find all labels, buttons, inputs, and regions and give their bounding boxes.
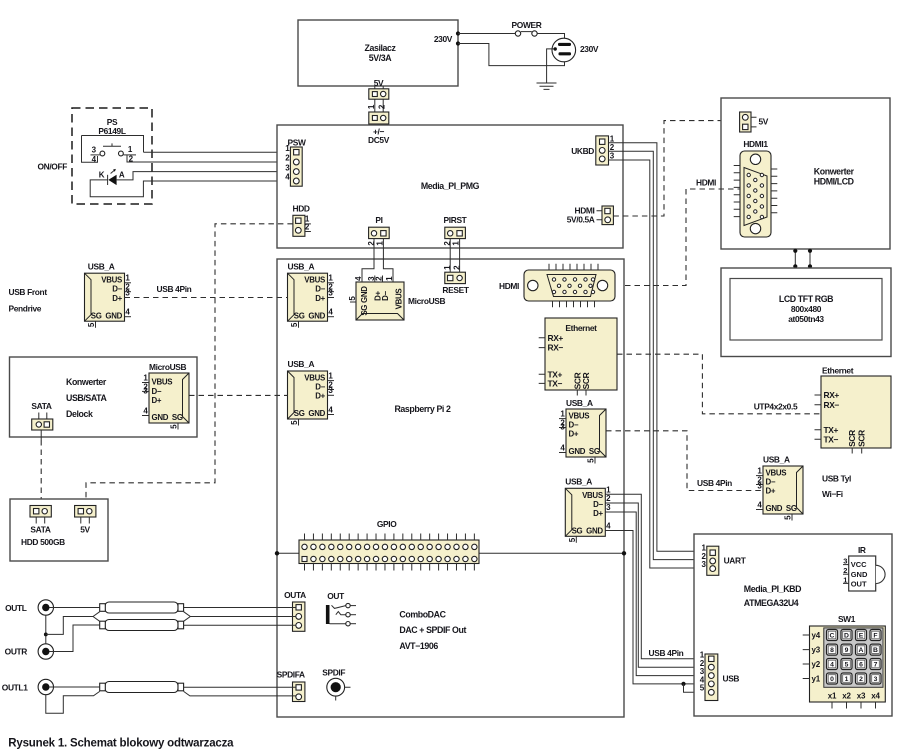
svg-text:GND: GND [766, 504, 783, 513]
RCA jack OUTL [5, 600, 53, 615]
wire plug earth [547, 49, 554, 83]
keypad SW1 [803, 614, 886, 709]
svg-text:9: 9 [845, 647, 849, 654]
wire (dashed) Konwerter MicroUSB to RPi USB2 [189, 394, 288, 396]
svg-text:Zasilacz: Zasilacz [364, 43, 396, 53]
svg-text:D+: D+ [766, 487, 776, 496]
wire (dashed) RPi USB3 to USB Tyl Wi-Fi [606, 431, 763, 491]
svg-text:USB_A: USB_A [763, 455, 790, 465]
svg-text:8: 8 [830, 647, 834, 654]
svg-text:A: A [859, 647, 864, 654]
svg-text:USB_A: USB_A [566, 398, 593, 408]
svg-text:D: D [844, 632, 849, 639]
wire branch to KBD USB5 [684, 684, 706, 692]
node USB GND branch [681, 682, 685, 686]
IR receiver U IR [843, 545, 885, 591]
svg-text:P6149L: P6149L [98, 126, 125, 136]
svg-text:K: K [99, 171, 105, 180]
shielded cable W3 [100, 682, 184, 693]
svg-text:OUTA: OUTA [284, 590, 306, 600]
svg-text:1: 1 [125, 274, 130, 283]
node divider left [275, 551, 279, 555]
connector 5V (HDD) [75, 506, 96, 535]
svg-text:VCC: VCC [851, 560, 867, 569]
node divider right [622, 551, 626, 555]
wire RPi USB4 pin3 to KBD USB3 [605, 512, 705, 676]
svg-text:2: 2 [375, 276, 384, 281]
AC plug 230V [552, 38, 599, 62]
box Ethernet (RPi) [539, 318, 617, 396]
wire PI.2 to MicroUSB pin4 [362, 239, 374, 276]
svg-text:GND: GND [308, 409, 325, 418]
connector RESET [442, 265, 469, 295]
wire UKBD1 to UART1 [609, 143, 707, 552]
svg-text:1: 1 [845, 676, 849, 683]
box Media_PI_KBD ATMEGA32U4 [694, 534, 892, 716]
svg-text:AVT−1906: AVT−1906 [399, 641, 438, 651]
svg-text:1: 1 [128, 145, 133, 154]
svg-text:OUTR: OUTR [5, 647, 28, 657]
wire 5V connector to DC5V connector pins 1 2 [375, 99, 383, 112]
svg-text:GND: GND [586, 526, 603, 535]
svg-text:F: F [873, 632, 877, 639]
dashed enclosure PS P6149L [37, 108, 152, 204]
wire LED cathode loop to PSW4 [90, 180, 290, 197]
svg-text:UKBD: UKBD [571, 146, 594, 156]
svg-text:Rysunek 1. Schemat blokowy odt: Rysunek 1. Schemat blokowy odtwarzacza [8, 738, 234, 750]
svg-text:E: E [859, 632, 864, 639]
svg-text:SCR: SCR [581, 372, 591, 389]
svg-text:USB Tyl: USB Tyl [822, 474, 851, 484]
connector USB_A (RPi port 1) [288, 262, 335, 328]
svg-text:7: 7 [874, 661, 878, 668]
connector SPDIFA [277, 670, 305, 702]
svg-text:3: 3 [125, 288, 130, 297]
wire W3 to SPDIFA1 [184, 686, 296, 688]
svg-text:5V: 5V [80, 525, 90, 535]
svg-text:5: 5 [845, 661, 849, 668]
svg-text:RX+: RX+ [548, 333, 564, 343]
connector SATA (Konwerter) [31, 401, 52, 430]
svg-text:VBUS: VBUS [304, 276, 325, 285]
svg-text:DAC + SPDIF Out: DAC + SPDIF Out [399, 625, 466, 635]
connector GPIO [299, 519, 479, 571]
svg-text:5V: 5V [759, 117, 769, 127]
wire PIRST to RESET [450, 239, 459, 273]
svg-text:D+: D+ [112, 294, 122, 303]
svg-text:SG: SG [786, 504, 797, 513]
connector PIRST [443, 215, 468, 245]
svg-text:B: B [873, 647, 878, 654]
svg-text:x4: x4 [871, 692, 880, 701]
svg-text:at050tn43: at050tn43 [788, 314, 824, 324]
svg-text:GND: GND [152, 413, 169, 422]
svg-text:3: 3 [92, 145, 97, 154]
svg-text:USB/SATA: USB/SATA [66, 393, 108, 403]
svg-text:GND: GND [308, 311, 325, 320]
svg-text:HDMI/LCD: HDMI/LCD [814, 177, 854, 187]
svg-text:3: 3 [610, 152, 615, 161]
svg-text:5V/0.5A: 5V/0.5A [567, 215, 595, 225]
wire RPi USB4 pin4 to KBD USB4 [605, 531, 705, 684]
svg-text:4: 4 [354, 276, 363, 281]
svg-text:TX−: TX− [824, 434, 839, 444]
svg-text:1: 1 [385, 276, 394, 281]
wire PSU to 5V connector [375, 86, 383, 89]
svg-text:SCR: SCR [857, 430, 867, 447]
wire RPi USB4 pin2 to KBD USB2 [605, 503, 705, 667]
wire (dashed) SATA to HDD 500GB [40, 430, 42, 440]
svg-text:3: 3 [606, 503, 611, 512]
svg-text:SG: SG [91, 311, 102, 320]
svg-text:Pendrive: Pendrive [9, 304, 42, 314]
shielded cable W1 [100, 602, 184, 613]
svg-text:Delock: Delock [66, 409, 93, 419]
svg-text:4: 4 [830, 661, 834, 668]
svg-text:230V: 230V [580, 44, 599, 54]
connector +/- DC5V [369, 112, 389, 124]
svg-text:SG: SG [572, 526, 583, 535]
svg-text:OUTL1: OUTL1 [2, 683, 28, 693]
svg-text:x1: x1 [828, 692, 837, 701]
svg-text:0: 0 [830, 676, 834, 683]
svg-text:OUTL: OUTL [5, 603, 27, 613]
svg-text:Konwerter: Konwerter [66, 377, 107, 387]
wire switch pin1 to PSW1 [144, 151, 291, 153]
svg-text:2: 2 [843, 566, 847, 575]
svg-text:5: 5 [568, 537, 577, 542]
connector UKBD [571, 135, 615, 166]
svg-text:y2: y2 [812, 660, 821, 669]
svg-text:GND: GND [851, 570, 868, 579]
svg-text:DC5V: DC5V [368, 135, 390, 145]
svg-text:GPIO: GPIO [377, 519, 397, 529]
svg-text:Media_PI_PMG: Media_PI_PMG [421, 181, 480, 191]
svg-text:HDD 500GB: HDD 500GB [21, 537, 65, 547]
svg-text:D−: D− [569, 421, 579, 430]
box Konwerter HDMI/LCD [721, 98, 890, 249]
svg-text:USB Front: USB Front [9, 287, 48, 297]
svg-text:x2: x2 [842, 692, 851, 701]
svg-text:5: 5 [87, 322, 96, 327]
svg-text:MicroUSB: MicroUSB [408, 296, 446, 306]
svg-text:4: 4 [606, 521, 611, 530]
box Raspberry Pi 2 / ComboDAC [277, 259, 624, 717]
svg-text:RESET: RESET [442, 285, 469, 295]
svg-text:SCR: SCR [847, 430, 857, 447]
svg-text:Ethernet: Ethernet [565, 323, 597, 333]
connector USB_A (RPi port 4) [565, 477, 611, 543]
svg-text:y4: y4 [812, 631, 821, 640]
svg-text:4: 4 [757, 500, 762, 509]
svg-text:5: 5 [784, 515, 793, 520]
svg-text:1: 1 [757, 467, 762, 476]
wire (dashed) HDMI 5V to Konwerter 5V [613, 121, 739, 216]
svg-text:SPDIFA: SPDIFA [277, 670, 305, 680]
svg-text:RX−: RX− [548, 343, 564, 353]
svg-text:SG: SG [294, 311, 305, 320]
svg-text:3: 3 [757, 481, 762, 490]
svg-text:VBUS: VBUS [304, 374, 325, 383]
svg-text:VBUS: VBUS [582, 491, 603, 500]
svg-text:LCD TFT RGB: LCD TFT RGB [779, 294, 833, 304]
svg-text:USB_A: USB_A [288, 359, 315, 369]
svg-text:RX+: RX+ [824, 390, 840, 400]
box Konwerter USB/SATA Delock [10, 357, 198, 437]
RCA jack OUTR [5, 644, 54, 659]
svg-text:VBUS: VBUS [394, 289, 403, 310]
svg-text:GND: GND [569, 447, 586, 456]
svg-text:D+: D+ [152, 396, 162, 405]
wire switch to plug [537, 34, 564, 39]
connector PI [367, 215, 389, 245]
svg-text:SG: SG [294, 409, 305, 418]
wire shield ticks W1 W2 right to OUTA2 [184, 612, 296, 622]
connector HDMI 5V/0.5A [567, 205, 614, 224]
connector 5V (PSU output) [369, 78, 389, 99]
svg-text:ON/OFF: ON/OFF [37, 162, 67, 172]
svg-text:SATA: SATA [31, 401, 51, 411]
svg-text:SG GND: SG GND [360, 286, 369, 316]
svg-text:D−: D− [381, 290, 390, 300]
svg-text:UTP4x2x0.5: UTP4x2x0.5 [754, 402, 798, 412]
wire (dashed) RPi HDMI to HDMI1 [616, 189, 741, 286]
svg-text:4: 4 [92, 155, 97, 164]
connector OUTA [284, 590, 306, 631]
svg-text:6: 6 [859, 661, 863, 668]
box HDD 500GB [10, 499, 108, 561]
svg-text:HDMI: HDMI [499, 281, 519, 291]
svg-text:Ethernet: Ethernet [822, 366, 854, 376]
wire W2 to OUTA3 [184, 624, 296, 626]
connector SATA (HDD) [30, 506, 51, 535]
svg-text:USB: USB [723, 674, 740, 684]
connector 5V (Konwerter) [740, 112, 769, 132]
svg-text:HDMI1: HDMI1 [743, 139, 768, 149]
wire Konwerter to LCD [795, 249, 810, 268]
wire OUTR to W2 [50, 625, 100, 652]
svg-text:1: 1 [367, 104, 376, 109]
wire 230V neutral [458, 44, 565, 66]
svg-text:D−: D− [315, 383, 325, 392]
svg-text:PI: PI [375, 215, 382, 225]
svg-text:HDD: HDD [293, 204, 310, 214]
box LCD TFT RGB [721, 268, 891, 357]
svg-text:SW1: SW1 [838, 614, 856, 624]
svg-text:D−: D− [152, 387, 162, 396]
svg-text:USB_A: USB_A [288, 262, 315, 272]
svg-text:Konwerter: Konwerter [814, 167, 855, 177]
svg-text:3: 3 [702, 560, 707, 569]
connector MicroUSB (Konwerter) [142, 362, 189, 430]
wire (dashed) HDD power to HDD 500GB 5V [86, 224, 293, 506]
svg-text:TX+: TX+ [824, 425, 839, 435]
svg-text:D+: D+ [315, 392, 325, 401]
svg-text:USB 4Pin: USB 4Pin [649, 648, 684, 658]
svg-text:POWER: POWER [512, 20, 542, 30]
box Media_PI_PMG [277, 125, 623, 248]
svg-text:A: A [119, 171, 125, 180]
svg-text:Raspberry Pi 2: Raspberry Pi 2 [394, 404, 451, 414]
power supply box Zasilacz 5V/3A [298, 20, 458, 86]
svg-text:PIRST: PIRST [444, 215, 468, 225]
wire OUTL to W1 [50, 607, 100, 609]
svg-text:OUT: OUT [851, 580, 867, 589]
connector USB_A (RPi port 2) [288, 359, 335, 426]
switch POWER [512, 20, 542, 36]
svg-text:D−: D− [112, 285, 122, 294]
connector PSW [285, 138, 306, 187]
svg-text:SATA: SATA [30, 525, 50, 535]
svg-text:ComboDAC: ComboDAC [399, 610, 446, 620]
wire shield ticks W1 W2 left [93, 612, 100, 622]
svg-text:ATMEGA32U4: ATMEGA32U4 [744, 598, 799, 608]
label ComboDAC block [399, 610, 466, 652]
svg-text:D+: D+ [593, 509, 603, 518]
svg-text:VBUS: VBUS [569, 412, 590, 421]
svg-text:1: 1 [606, 485, 611, 494]
box Ethernet (right) [815, 366, 892, 454]
svg-text:3: 3 [874, 676, 878, 683]
svg-text:2: 2 [378, 104, 387, 109]
wire OUTL1 shield loop [46, 691, 100, 713]
svg-text:IR: IR [858, 545, 866, 555]
svg-text:VBUS: VBUS [152, 378, 173, 387]
shielded cable W2 [100, 620, 184, 631]
wire UKBD3 to UART3 [609, 160, 707, 568]
connector UART [702, 544, 747, 576]
svg-text:PSW: PSW [287, 138, 305, 148]
svg-text:2: 2 [859, 676, 863, 683]
svg-text:y3: y3 [812, 645, 821, 654]
svg-text:5V/3A: 5V/3A [369, 53, 392, 63]
svg-text:RX−: RX− [824, 400, 840, 410]
ground [537, 83, 557, 89]
svg-text:SG: SG [172, 413, 183, 422]
wire W3 shield right to SPDIFA2 [184, 691, 296, 696]
svg-text:MicroUSB: MicroUSB [149, 362, 187, 372]
wire PI.1 to MicroUSB pin1 [383, 239, 393, 276]
connector USB (KBD) [700, 651, 740, 701]
connector HDMI (RPi, DB15 horizontal) [499, 264, 615, 308]
wire UKBD2 to UART2 [609, 151, 707, 559]
wire 230V live to switch [458, 33, 515, 35]
svg-text:5: 5 [348, 296, 357, 301]
svg-text:230V: 230V [434, 34, 453, 44]
wire W1 to OUTA1 [184, 607, 296, 609]
svg-text:Wi−Fi: Wi−Fi [822, 489, 843, 499]
wire (dashed) pendrive to RPi USB1 [125, 297, 288, 299]
svg-text:D−: D− [766, 478, 776, 487]
svg-text:4: 4 [125, 308, 130, 317]
svg-text:2: 2 [606, 494, 611, 503]
wire LED anode to PSW3 [117, 172, 291, 180]
svg-text:TX−: TX− [548, 378, 563, 388]
svg-text:SPDIF: SPDIF [322, 668, 345, 678]
connector HDMI1 (DB15 vertical) [734, 139, 778, 237]
node 230V line [456, 31, 460, 35]
LED K A in PS [99, 169, 125, 185]
wire RPi USB4 pin1 to KBD USB1 [605, 494, 705, 659]
svg-text:USB 4Pin: USB 4Pin [157, 284, 192, 294]
svg-text:VBUS: VBUS [766, 469, 787, 478]
svg-text:SG: SG [589, 447, 600, 456]
svg-text:GND: GND [105, 311, 122, 320]
wire GPIO divider rail [277, 552, 624, 554]
connector USB_A (USB Tyl Wi-Fi, mirrored) [756, 455, 803, 521]
svg-text:UART: UART [724, 556, 747, 566]
svg-text:OUT: OUT [327, 591, 345, 601]
jack SPDIF [322, 668, 350, 701]
svg-text:USB_A: USB_A [565, 477, 592, 487]
svg-text:y1: y1 [812, 674, 821, 683]
svg-text:800x480: 800x480 [791, 304, 822, 314]
svg-text:USB_A: USB_A [88, 262, 115, 272]
RCA jack OUTL1 [2, 679, 54, 694]
jack OUT [326, 591, 356, 626]
wire OUTL shield junction [45, 615, 47, 644]
connector USB_A (USB Front Pendrive) [85, 262, 132, 328]
connector MicroUSB (RPi, rotated) [348, 276, 446, 321]
svg-text:D+: D+ [569, 430, 579, 439]
svg-text:HDMI: HDMI [696, 178, 716, 188]
svg-text:D+: D+ [315, 294, 325, 303]
connector USB_A (RPi port 3, mirrored) [559, 398, 606, 464]
connector HDD [293, 204, 311, 237]
wire OUTL1 to W3 [50, 686, 100, 688]
svg-text:D−: D− [315, 285, 325, 294]
wire (dashed) RPi Ethernet to Ethernet UTP4x2x0.5 [617, 354, 821, 414]
svg-text:D−: D− [593, 500, 603, 509]
svg-text:x3: x3 [857, 692, 866, 701]
svg-text:VBUS: VBUS [101, 276, 122, 285]
svg-text:C: C [830, 632, 835, 639]
switch S1 in PS [82, 136, 291, 165]
svg-text:USB 4Pin: USB 4Pin [697, 478, 732, 488]
svg-text:Media_PI_KBD: Media_PI_KBD [744, 584, 801, 594]
